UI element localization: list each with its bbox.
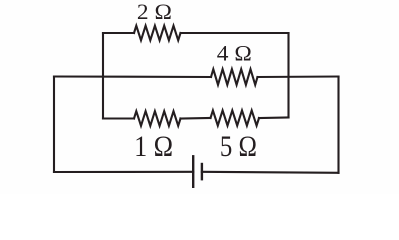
resistor 5 ohm zigzag — [211, 110, 260, 125]
wire: between 1 ohm and 5 ohm — [181, 117, 211, 120]
wire: bottom right segment from battery — [202, 172, 339, 173]
battery long plate — [192, 156, 194, 187]
resistor 2 ohm zigzag — [134, 26, 181, 41]
svg-text:4 Ω: 4 Ω — [217, 41, 252, 66]
resistor 1 ohm zigzag — [134, 111, 181, 126]
wire: inner right vertical (node joining top and bottom inner branches) — [287, 33, 289, 118]
svg-text:2 Ω: 2 Ω — [137, 0, 172, 24]
wire: outer left vertical — [53, 77, 55, 173]
wire: middle branch right lead — [258, 75, 339, 78]
wire: bottom inner branch right lead — [259, 116, 289, 119]
wire: middle branch left lead — [54, 75, 211, 78]
svg-text:1 Ω: 1 Ω — [134, 130, 173, 163]
resistor 4 ohm zigzag — [211, 69, 258, 85]
wire: bottom inner branch left lead — [103, 117, 134, 119]
wire: outer right vertical — [337, 77, 339, 173]
wire: top branch right lead — [181, 32, 289, 34]
wire: bottom left segment to battery — [54, 171, 193, 173]
wire: inner left vertical (node joining top and bottom inner branches) — [102, 33, 104, 119]
battery short plate — [201, 164, 203, 179]
wire: top branch left lead — [103, 32, 134, 34]
svg-text:5 Ω: 5 Ω — [220, 130, 257, 163]
